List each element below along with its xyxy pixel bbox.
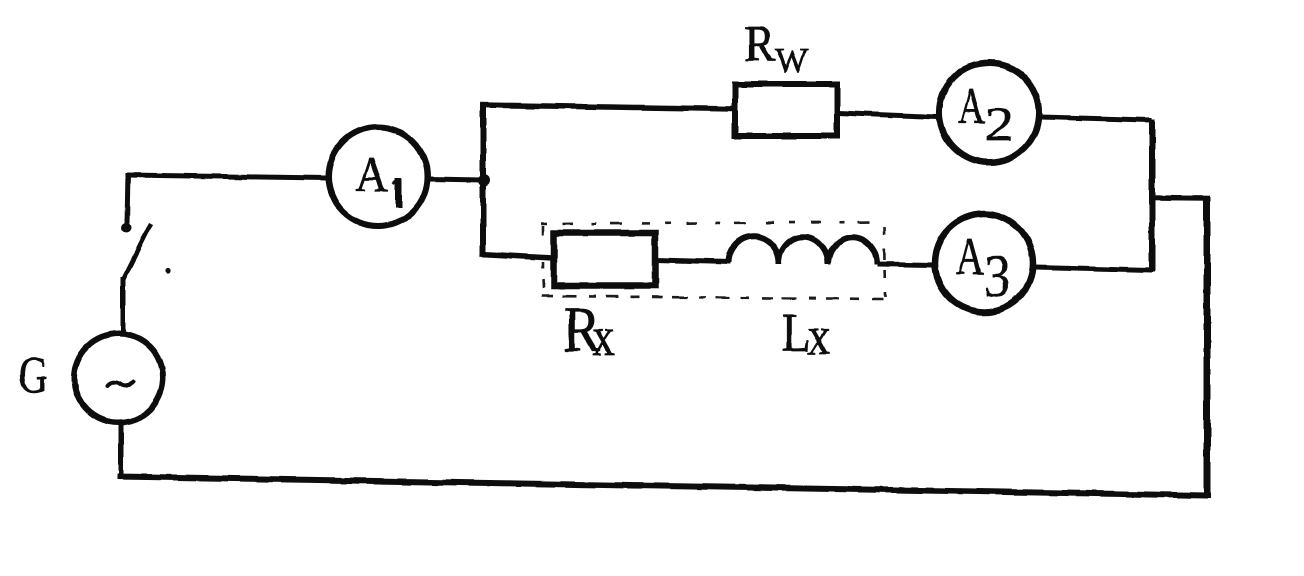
svg-text:3: 3 <box>984 243 1011 309</box>
svg-text:A: A <box>956 228 984 286</box>
svg-text:A: A <box>355 146 388 202</box>
svg-text:W: W <box>775 41 808 80</box>
svg-text:x: x <box>592 306 615 367</box>
svg-text:2: 2 <box>985 98 1014 151</box>
svg-text:G: G <box>19 348 48 404</box>
svg-text:L: L <box>782 302 810 363</box>
svg-text:A: A <box>958 78 985 134</box>
svg-text:x: x <box>807 306 830 366</box>
svg-text:R: R <box>744 16 775 73</box>
